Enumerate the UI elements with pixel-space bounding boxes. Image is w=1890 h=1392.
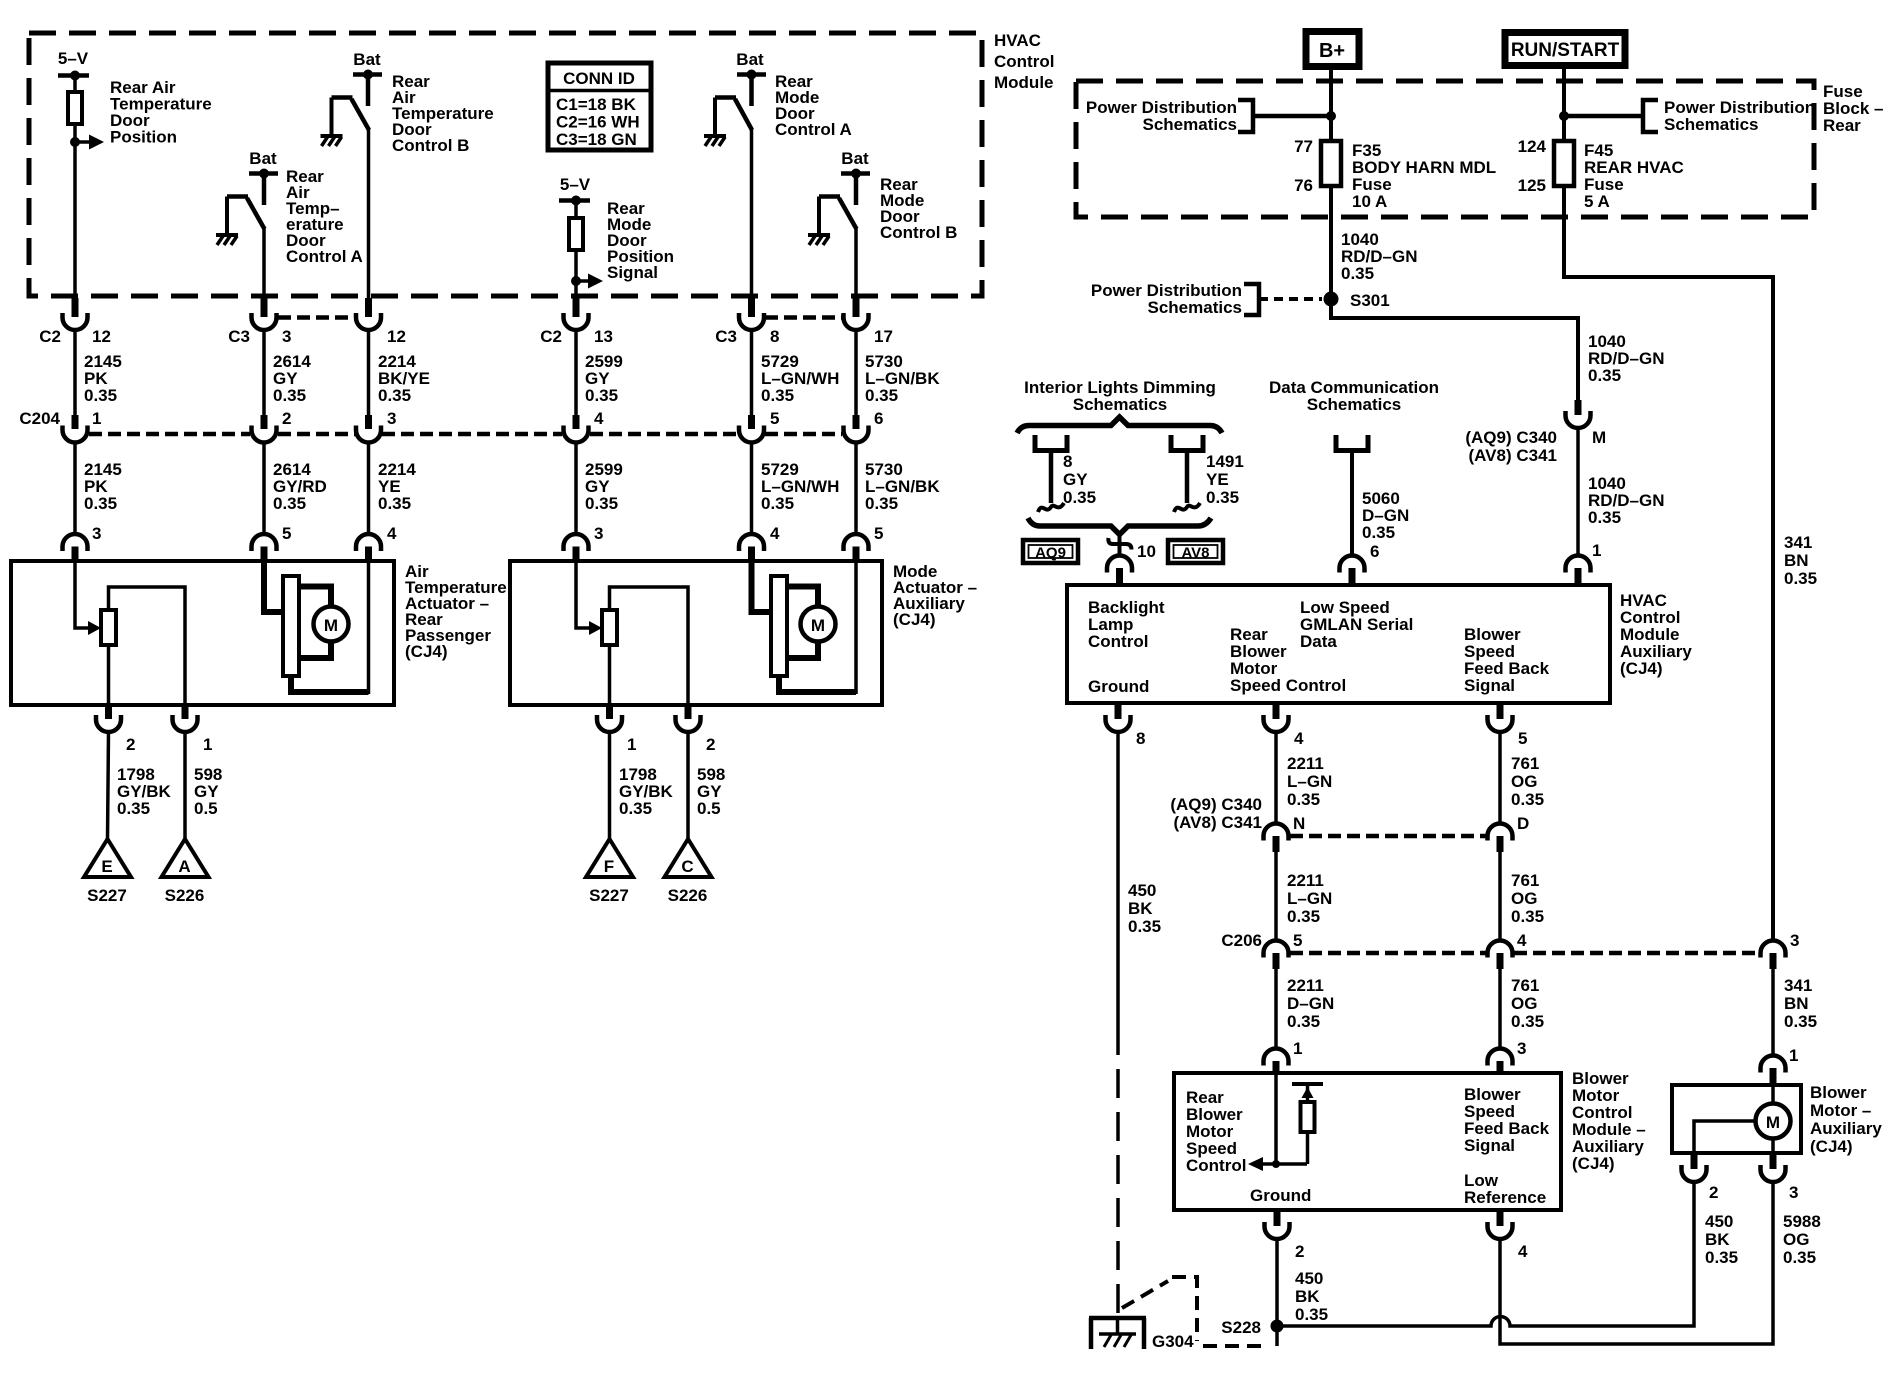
wire switch to pin 17 (854, 228, 858, 298)
svg-text:0.35: 0.35 (84, 386, 117, 405)
svg-text:C: C (681, 857, 693, 876)
HVAC Control Module label (994, 31, 1054, 92)
svg-text:0.35: 0.35 (117, 799, 150, 818)
svg-text:E: E (101, 857, 112, 876)
svg-text:0.35: 0.35 (865, 386, 898, 405)
svg-text:5: 5 (770, 409, 779, 428)
fuse F45 REAR HVAC 5A (1518, 137, 1684, 211)
connector pin 1 below mode actuator (597, 705, 636, 754)
svg-text:L–GN: L–GN (1287, 772, 1332, 791)
wire S301 to connector M (1040 RD/D-GN) (1331, 299, 1665, 400)
CONN ID table (548, 63, 651, 150)
svg-text:CONN ID: CONN ID (563, 69, 635, 88)
svg-text:3: 3 (594, 524, 603, 543)
svg-text:C206: C206 (1221, 931, 1262, 950)
svg-text:450: 450 (1295, 1269, 1323, 1288)
connector half (5060 D-GN circuit) (1336, 435, 1368, 556)
svg-text:(AV8) C341: (AV8) C341 (1174, 813, 1263, 832)
node RUN/START junction (1559, 111, 1569, 121)
wire pot bottom to pin 1 (608, 645, 612, 705)
svg-text:0.35: 0.35 (1784, 1012, 1817, 1031)
connector C204 pin 2 (252, 409, 292, 443)
connector C3 pin 17 (col6 row1) (844, 298, 893, 346)
svg-text:BN: BN (1784, 551, 1809, 570)
HVAC Control Module dashed box (29, 33, 982, 296)
switch Rear Mode Door Control B (819, 197, 857, 235)
wire RUN/START down to fuse F45 (1562, 66, 1566, 141)
rheostat (blower speed control resistor) (1292, 1084, 1323, 1164)
svg-text:Reference: Reference (1464, 1188, 1546, 1207)
box text Blower Speed Feed Back Signal (1464, 1085, 1550, 1155)
svg-text:0.35: 0.35 (761, 386, 794, 405)
svg-text:OG: OG (1511, 889, 1537, 908)
label Rear Mode Door Control B (880, 175, 957, 242)
svg-text:D–GN: D–GN (1287, 994, 1334, 1013)
Air Temperature Actuator box (11, 561, 394, 705)
switch Rear Air Temperature Door Control B (332, 98, 370, 136)
connector half (1491 YE circuit) (1171, 435, 1203, 512)
switch Rear Mode Door Control A (715, 98, 752, 136)
svg-text:(AQ9) C340: (AQ9) C340 (1170, 795, 1262, 814)
wire 2145 PK (upper) (75, 330, 122, 415)
dashed connector row C206 (right span) (1514, 951, 1759, 956)
svg-text:M: M (1592, 428, 1606, 447)
svg-text:S301: S301 (1350, 291, 1390, 310)
svg-text:0.35: 0.35 (84, 494, 117, 513)
svg-text:C3: C3 (228, 327, 250, 346)
connector C2 pin 12 (col1 row1) (39, 298, 111, 346)
overbrace interior lights dimming (1017, 417, 1222, 433)
svg-text:341: 341 (1784, 976, 1812, 995)
svg-text:10: 10 (1137, 542, 1156, 561)
svg-text:Bat: Bat (736, 50, 764, 69)
wire pot top loop to pin 1 (109, 587, 186, 705)
Fuse Block - Rear dashed box (1076, 81, 1814, 217)
svg-text:Signal: Signal (1464, 676, 1515, 695)
wire B+ down to fuse F35 (1329, 68, 1333, 141)
svg-text:17: 17 (874, 327, 893, 346)
svg-text:761: 761 (1511, 754, 1539, 773)
box text Low Reference (1464, 1171, 1546, 1207)
svg-text:2: 2 (282, 409, 291, 428)
svg-text:2: 2 (126, 735, 135, 754)
svg-text:Blower: Blower (1810, 1083, 1867, 1102)
wire 1798 GY/BK (left) (108, 732, 172, 839)
svg-text:Control: Control (1088, 632, 1148, 651)
wire 2211 L-GN (pin4 to N) (1276, 732, 1332, 824)
svg-text:2211: 2211 (1287, 754, 1324, 773)
svg-text:3: 3 (1517, 1039, 1526, 1058)
svg-text:0.35: 0.35 (1511, 1012, 1544, 1031)
svg-text:2211: 2211 (1287, 871, 1324, 890)
wire 761 OG (D to C206) (1500, 852, 1544, 941)
connector C340/C341 pin D (1488, 814, 1530, 852)
svg-text:M: M (811, 616, 825, 635)
connector pin 3 into air temp actuator (63, 524, 102, 562)
label Rear Air Temperature Door Control A (286, 167, 363, 266)
Blower Motor Control Module box (1174, 1073, 1561, 1210)
svg-text:(AQ9) C340: (AQ9) C340 (1465, 428, 1557, 447)
svg-text:8: 8 (1063, 452, 1072, 471)
B+ power symbol (1306, 32, 1359, 67)
svg-text:BK: BK (1705, 1230, 1730, 1249)
connector pin 1 into HVAC control module auxiliary (1566, 541, 1602, 585)
svg-text:76: 76 (1294, 176, 1313, 195)
svg-text:3: 3 (387, 409, 396, 428)
box text Blower Speed Feed Back Signal (1464, 625, 1550, 695)
wire switch B to pin 12 (367, 129, 371, 298)
dashed connector row C340/C341 (1290, 834, 1486, 839)
svg-text:0.35: 0.35 (273, 386, 306, 405)
wire S228 to blower motor pin 2 (with hop) (1277, 1182, 1694, 1326)
connector C206 pin 5 (1221, 931, 1302, 969)
svg-text:1491: 1491 (1206, 452, 1244, 471)
svg-text:3: 3 (1789, 1183, 1798, 1202)
svg-text:Data: Data (1300, 632, 1337, 651)
svg-text:(CJ4): (CJ4) (1620, 659, 1663, 678)
svg-text:761: 761 (1511, 976, 1539, 995)
node with signal arrow (Rear Air Temperature Door Position) (70, 135, 104, 150)
svg-text:4: 4 (1517, 931, 1527, 950)
wire 450 BK (dashed ground run) (1118, 732, 1161, 1318)
box text Backlight Lamp Control / Ground (1088, 598, 1165, 696)
wire switch to C3 pin 8 (750, 129, 754, 298)
svg-text:S226: S226 (165, 886, 205, 905)
wire 5729 L-GN/WH (lower) (752, 443, 840, 535)
wire 1491 YE label (1206, 452, 1244, 507)
svg-text:0.35: 0.35 (378, 386, 411, 405)
svg-text:0.35: 0.35 (1588, 508, 1621, 527)
wire 5988 OG blower motor label (1783, 1212, 1821, 1267)
5-V supply label (rear mode door position signal) (559, 175, 591, 206)
svg-text:1: 1 (1293, 1039, 1302, 1058)
label Rear Air Temperature Door Control B (392, 72, 494, 155)
connector pin 1 into blower motor auxiliary (1761, 1046, 1799, 1085)
connector C3 pin 8 (col5 row1) (715, 298, 779, 346)
svg-text:2: 2 (1295, 1242, 1304, 1261)
svg-text:12: 12 (92, 327, 111, 346)
wire pin3 to wiper arrow (left pot) (75, 562, 90, 628)
svg-text:Control: Control (994, 52, 1054, 71)
ground (switch B left) (321, 136, 343, 146)
svg-text:0.35: 0.35 (1206, 488, 1239, 507)
connector pin 4 below control module (1488, 1210, 1529, 1261)
svg-text:GY: GY (1063, 470, 1088, 489)
label Rear Air Temperature Door Position (110, 78, 212, 147)
wire M to pin 1 (1040 RD/D-GN) (1578, 428, 1665, 556)
svg-text:3: 3 (92, 524, 101, 543)
wiper arrow into mode potentiometer (589, 621, 602, 635)
svg-text:RUN/START: RUN/START (1511, 40, 1620, 61)
svg-text:5–V: 5–V (58, 49, 89, 68)
dashed link C3 pins 3-12 (278, 315, 355, 320)
svg-text:1: 1 (203, 735, 212, 754)
ground triangle F S227 (586, 839, 633, 905)
svg-text:0.5: 0.5 (697, 799, 721, 818)
connector C204 pin 5 (739, 409, 779, 443)
connector pin 5 below HVAC aux module (1488, 703, 1528, 748)
connector C204 pin 4 (564, 409, 605, 443)
svg-text:C2=16 WH: C2=16 WH (556, 113, 640, 132)
ground triangle A S226 (162, 839, 209, 905)
wire resistor to C2 pin 13 (574, 250, 578, 298)
5-V supply label (rear air temp door position) (58, 49, 89, 81)
dashed reference outline to G304 (1122, 1277, 1277, 1346)
svg-text:Rear: Rear (1823, 116, 1861, 135)
HVAC Control Module Auxiliary box (1067, 585, 1610, 703)
Blower Motor Auxiliary box (1672, 1085, 1801, 1153)
connector half (8 GY circuit) (1035, 435, 1067, 512)
resistor rear air temperature door position sensor (68, 92, 82, 124)
Data Communication Schematics label (1269, 378, 1439, 414)
wire pin3 to wiper arrow (right pot) (576, 562, 591, 628)
svg-text:Module: Module (994, 73, 1054, 92)
svg-text:13: 13 (594, 327, 613, 346)
node B+ / PDS junction (1326, 111, 1336, 121)
wire 761 OG (C206 to module) (1500, 969, 1544, 1049)
svg-text:Signal: Signal (607, 263, 658, 282)
svg-text:Schematics: Schematics (1073, 395, 1168, 414)
svg-text:Control B: Control B (392, 136, 469, 155)
wire 2211 D-GN (C206 to module) (1276, 969, 1334, 1049)
connector pin 1 into blower motor control module (1264, 1039, 1303, 1073)
Power Distribution Schematics callout (B+) (1086, 98, 1331, 134)
svg-text:AV8: AV8 (1181, 545, 1209, 562)
Interior Lights Dimming Schematics label (1024, 378, 1216, 414)
svg-text:5 A: 5 A (1584, 192, 1610, 211)
svg-text:4: 4 (1294, 729, 1304, 748)
svg-text:Control: Control (1186, 1156, 1246, 1175)
svg-text:0.35: 0.35 (619, 799, 652, 818)
svg-text:C1=18 BK: C1=18 BK (556, 95, 637, 114)
AV8 tag (1168, 540, 1223, 563)
svg-text:C2: C2 (540, 327, 562, 346)
svg-text:5: 5 (1518, 729, 1527, 748)
connector C3 pin 12 (col3 row1) (356, 298, 406, 346)
svg-text:4: 4 (594, 409, 604, 428)
svg-text:4: 4 (387, 524, 397, 543)
svg-text:2211: 2211 (1287, 976, 1324, 995)
svg-text:761: 761 (1511, 871, 1539, 890)
svg-text:341: 341 (1784, 533, 1812, 552)
svg-text:(CJ4): (CJ4) (405, 642, 448, 661)
wire 2214 BK/YE (upper) (369, 330, 430, 415)
connector pin 2 below blower motor (1682, 1153, 1719, 1202)
svg-text:2: 2 (1709, 1183, 1718, 1202)
C204 connector row dashed line (89, 432, 842, 437)
svg-text:S228: S228 (1221, 1318, 1261, 1337)
wire pot top loop to pin 2 (610, 587, 689, 705)
svg-text:S227: S227 (87, 886, 127, 905)
svg-text:BN: BN (1784, 994, 1809, 1013)
wire 450 BK blower motor label (1705, 1212, 1738, 1267)
connector C206 pin 4 (1488, 931, 1528, 969)
svg-text:C3: C3 (715, 327, 737, 346)
svg-text:2: 2 (706, 735, 715, 754)
wire 5730 L-GN/BK (upper) (856, 330, 940, 415)
ground triangle E S227 (84, 839, 131, 905)
svg-text:Control A: Control A (286, 247, 363, 266)
wire 341 BN (C206 to blower motor) (1773, 969, 1817, 1056)
svg-text:0.5: 0.5 (194, 799, 218, 818)
svg-text:F: F (604, 857, 614, 876)
svg-text:0.35: 0.35 (1784, 569, 1817, 588)
connector pin 2 below mode actuator (676, 705, 716, 754)
wire low reference pin 4 to blower motor pin 3 (1500, 1182, 1773, 1344)
svg-text:Bat: Bat (249, 149, 277, 168)
dashed link C3 pins 8-17 (765, 315, 843, 320)
connector pin 8 below HVAC aux module (1106, 703, 1146, 748)
label Mode Actuator - Auxiliary (CJ4) (893, 562, 977, 629)
wire 2614 GY (upper) (264, 330, 311, 415)
wire 2214 YE (lower) (369, 443, 417, 535)
connector C204 pin 3 (356, 409, 396, 443)
label Rear Mode Door Position Signal (607, 199, 674, 282)
connector pin 3 into blower motor control module (1488, 1039, 1527, 1073)
connector C340/C341 pin M (1465, 400, 1606, 465)
motor M air temp actuator (264, 562, 369, 694)
svg-text:77: 77 (1294, 137, 1313, 156)
svg-text:OG: OG (1783, 1230, 1809, 1249)
box text Rear Blower Motor Speed Control (1186, 1088, 1246, 1175)
svg-text:0.35: 0.35 (1287, 907, 1320, 926)
svg-text:M: M (324, 616, 338, 635)
svg-text:0.35: 0.35 (585, 386, 618, 405)
svg-text:450: 450 (1128, 881, 1156, 900)
AQ9 tag (1023, 540, 1078, 563)
wire 2211 L-GN (N to C206) (1276, 852, 1332, 941)
potentiometer (air temp actuator position) (101, 610, 116, 645)
connector C204 pin 1 (19, 409, 101, 443)
box text Rear Blower Motor Speed Control (1230, 625, 1346, 695)
svg-text:3: 3 (282, 327, 291, 346)
connector pin 4 below HVAC aux module (1264, 703, 1305, 748)
svg-text:6: 6 (874, 409, 883, 428)
Power Distribution Schematics callout (S301) (1091, 281, 1322, 317)
svg-text:8: 8 (1136, 729, 1145, 748)
ground (mode switch B) (808, 235, 830, 245)
svg-text:HVAC: HVAC (994, 31, 1041, 50)
Bat feed for Rear Air Temperature Door Control A (249, 149, 278, 205)
motor M blower motor auxiliary (1694, 1085, 1791, 1153)
connector pin 6 into HVAC control module auxiliary (1340, 542, 1380, 585)
svg-text:Control B: Control B (880, 223, 957, 242)
svg-text:(CJ4): (CJ4) (1572, 1154, 1615, 1173)
svg-text:Ground: Ground (1250, 1186, 1311, 1205)
svg-text:Control A: Control A (775, 120, 852, 139)
svg-text:B+: B+ (1319, 40, 1345, 62)
svg-text:0.35: 0.35 (865, 494, 898, 513)
connector C206 pin 3 (341 BN wire) (1761, 931, 1800, 969)
node with signal arrow (Rear Mode Door Position Signal) (571, 274, 603, 289)
wire 598 GY (left) (185, 732, 222, 839)
Bat feed for Rear Mode Door Control A (736, 50, 766, 106)
svg-text:YE: YE (1206, 470, 1229, 489)
svg-text:0.35: 0.35 (1063, 488, 1096, 507)
svg-text:M: M (1766, 1113, 1780, 1132)
connector pin 4 into air temp actuator (356, 524, 397, 562)
svg-text:Schematics: Schematics (1143, 115, 1238, 134)
label HVAC Control Module Auxiliary (CJ4) (1620, 591, 1692, 678)
connector pin 2 below control module (1265, 1210, 1305, 1261)
label Blower Motor - Auxiliary (CJ4) (1810, 1083, 1882, 1156)
svg-text:0.35: 0.35 (1128, 917, 1161, 936)
svg-text:Bat: Bat (841, 149, 869, 168)
svg-text:Auxiliary: Auxiliary (1810, 1119, 1882, 1138)
svg-text:0.35: 0.35 (1783, 1248, 1816, 1267)
svg-text:(CJ4): (CJ4) (893, 610, 936, 629)
box text Low Speed GMLAN Serial Data (1300, 598, 1413, 651)
svg-text:1: 1 (1789, 1046, 1798, 1065)
connector pin 4 into mode actuator (739, 524, 780, 562)
wire 5729 L-GN/WH (upper) (752, 330, 840, 415)
svg-text:L–GN: L–GN (1287, 889, 1332, 908)
ground triangle C S226 (665, 839, 712, 905)
ground (switch A left) (216, 235, 238, 245)
wire switch A to C3 pin 3 (262, 228, 266, 298)
switch Rear Air Temperature Door Control A (227, 197, 265, 235)
label Air Temperature Actuator - Rear Passenger (CJ4) (405, 562, 507, 661)
wire 341 BN label (upper) (1784, 533, 1817, 588)
connector C2 pin 13 (col4 row1) (540, 298, 613, 346)
svg-text:5: 5 (1293, 931, 1302, 950)
wire 5-V to resistor (574, 201, 578, 219)
svg-text:0.35: 0.35 (1511, 907, 1544, 926)
connector pin 5 into mode actuator (844, 524, 884, 562)
connector C204 pin 6 (844, 409, 884, 443)
wire 450 BK pin2 to S228 (1277, 1239, 1328, 1326)
connector pin 1 below air temp actuator (173, 705, 213, 754)
wire resistor to C2 pin 12 (73, 124, 77, 298)
connector pin 10 into HVAC control module auxiliary (1107, 534, 1156, 585)
svg-text:G304: G304 (1152, 1332, 1194, 1351)
svg-text:6: 6 (1370, 542, 1379, 561)
svg-text:10 A: 10 A (1352, 192, 1387, 211)
connector pin 3 below blower motor (1761, 1153, 1799, 1202)
wire 5060 D-GN label (1362, 489, 1409, 542)
wire 598 GY (right) (688, 732, 725, 839)
svg-text:(CJ4): (CJ4) (1810, 1137, 1853, 1156)
svg-text:0.35: 0.35 (1362, 523, 1395, 542)
ground (mode switch A) (704, 136, 726, 146)
svg-text:Position: Position (110, 128, 177, 147)
connector pin 3 into mode actuator (564, 524, 604, 562)
wire 761 OG (pin5 to D) (1500, 732, 1544, 824)
svg-text:0.35: 0.35 (1705, 1248, 1738, 1267)
svg-text:1: 1 (1592, 541, 1601, 560)
svg-text:1: 1 (92, 409, 101, 428)
svg-text:1: 1 (627, 735, 636, 754)
svg-text:0.35: 0.35 (585, 494, 618, 513)
wire 2599 GY (upper) (576, 330, 623, 415)
svg-text:OG: OG (1511, 994, 1537, 1013)
svg-text:0.35: 0.35 (378, 494, 411, 513)
label Blower Motor Control Module - Auxiliary (CJ4) (1572, 1069, 1646, 1173)
svg-text:450: 450 (1705, 1212, 1733, 1231)
svg-text:0.35: 0.35 (273, 494, 306, 513)
wire 1798 GY/BK (right) (610, 732, 674, 839)
svg-text:5: 5 (874, 524, 883, 543)
svg-text:4: 4 (770, 524, 780, 543)
svg-text:125: 125 (1518, 176, 1546, 195)
svg-text:4: 4 (1518, 1242, 1528, 1261)
node S228 (1221, 1318, 1283, 1337)
svg-text:0.35: 0.35 (1341, 264, 1374, 283)
svg-text:A: A (178, 857, 190, 876)
resistor rear mode door position sensor (569, 218, 583, 250)
svg-text:C2: C2 (39, 327, 61, 346)
wire 8 GY label (1063, 452, 1096, 507)
